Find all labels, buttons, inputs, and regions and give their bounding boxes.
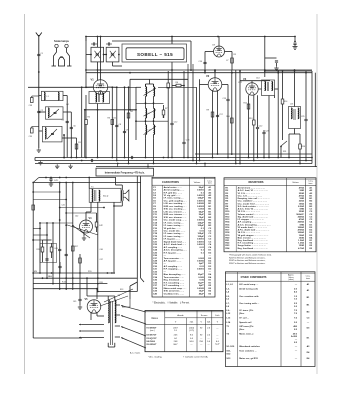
- capacitor C22: [256, 126, 259, 128]
- svg-text:A.F.C. diode load ... ... ...: A.F.C. diode load ... ... ... ... ... ..: [238, 229, 270, 232]
- ground V4: [83, 236, 85, 238]
- svg-text:125pF: 125pF: [197, 198, 204, 200]
- svg-text:V2 grid dec. ... ...: V2 grid dec. ... ...: [164, 228, 182, 230]
- wire T1 sec down b: [113, 206, 115, 273]
- svg-text:R5: R5: [234, 54, 236, 56]
- svg-text:2.6: 2.6: [174, 330, 177, 332]
- svg-text:S.W. osc. trimmer ... ..: S.W. osc. trimmer ... ..: [164, 216, 187, 219]
- svg-text:C23: C23: [265, 131, 268, 133]
- tone network box: [40, 244, 57, 263]
- wire lower top rail: [39, 177, 116, 179]
- svg-text:0.0001: 0.0001: [197, 269, 204, 271]
- svg-text:Tone switches ...: Tone switches ...: [239, 350, 257, 353]
- svg-text:C14: C14: [256, 78, 259, 80]
- aerial coil box L3 L4: [46, 107, 64, 119]
- valve V1 osc section: [214, 46, 225, 57]
- resistor R18: [95, 222, 98, 227]
- wire v248: [248, 95, 250, 157]
- wire link y213: [66, 212, 96, 214]
- wire top drop x264: [264, 37, 266, 78]
- svg-text:V1: V1: [91, 78, 95, 82]
- valves table: [145, 311, 223, 352]
- capacitor C9b: [123, 130, 126, 132]
- wire stub 96: [96, 213, 98, 218]
- wire v274: [274, 96, 276, 99]
- wire rung1: [33, 191, 60, 193]
- svg-text:C5: C5: [62, 120, 64, 122]
- svg-text:Screen: Screen: [201, 314, 208, 317]
- capacitor C5: [66, 120, 69, 122]
- node bus j3: [217, 153, 219, 155]
- svg-text:Aerial tuning coils: Aerial tuning coils: [239, 288, 259, 291]
- svg-text:L5,: L5,: [226, 296, 230, 298]
- svg-text:H.T. by-pass ... ...: H.T. by-pass ... ...: [164, 252, 182, 254]
- svg-text:A.C. mains: A.C. mains: [130, 352, 140, 355]
- svg-text:R9: R9: [207, 110, 209, 112]
- svg-text:C6: C6: [73, 126, 75, 128]
- svg-text:C45: C45: [73, 301, 76, 303]
- wire v269: [268, 96, 270, 158]
- speaker L14: [121, 190, 123, 200]
- capacitor C23: [262, 131, 265, 133]
- capacitor C47: [58, 265, 61, 267]
- wire V4 cath: [83, 233, 85, 237]
- wire V1 right pin: [108, 86, 117, 88]
- wire rail y79 drop: [129, 79, 131, 110]
- svg-text:C39: C39: [29, 136, 32, 138]
- wire V1 left pin: [86, 86, 93, 88]
- wire bus rail 2: [35, 157, 312, 159]
- wire V3 top: [251, 81, 253, 83]
- svg-text:H.T. smoothing ... ... ... ...: H.T. smoothing ... ... ... ... ... ...: [238, 242, 269, 245]
- capacitor C17: [216, 114, 219, 116]
- wire V1 top pin: [100, 37, 102, 80]
- svg-text:16µF*: 16µF*: [198, 282, 204, 284]
- svg-text:C10: C10: [199, 61, 202, 63]
- wire bus rail 1: [195, 153, 312, 155]
- svg-text:Osc. grid coupling ... .: Osc. grid coupling ... .: [164, 200, 187, 202]
- svg-text:R2: R2: [88, 117, 90, 119]
- svg-text:A.G.C. decoupling ... ... ...: A.G.C. decoupling ... ... ... ... ... ..: [238, 223, 271, 226]
- svg-text:Anode: Anode: [177, 314, 184, 317]
- capacitor C3t: [107, 42, 109, 45]
- output transformer T1 box: [89, 188, 121, 202]
- wire top rail stub 2: [97, 37, 99, 48]
- valve V3: [246, 83, 258, 95]
- wire v47b: [46, 223, 48, 278]
- svg-text:L7,: L7,: [226, 303, 230, 305]
- svg-text:R13: R13: [249, 118, 252, 120]
- svg-text:A.F. coupling ... ...: A.F. coupling ... ...: [164, 246, 183, 249]
- svg-text:V4 6V6G: V4 6V6G: [146, 340, 155, 343]
- IF2 coils: [265, 82, 266, 91]
- svg-text:8µF*: 8µF*: [199, 285, 204, 287]
- resistor R3b: [111, 120, 114, 125]
- capacitor C43: [58, 248, 61, 250]
- wire V5 conn b: [82, 330, 104, 332]
- capacitor C44b: [65, 253, 68, 255]
- wire arrows in: [187, 64, 189, 72]
- svg-text:Tone corrector ... ...: Tone corrector ... ...: [164, 276, 185, 279]
- wire rail y110: [85, 109, 130, 111]
- mains transformer T2 secondary: [115, 300, 116, 323]
- wire link y207: [60, 207, 104, 209]
- resistor R9: [211, 112, 214, 117]
- node top rail j3: [264, 36, 266, 38]
- resistor R7: [162, 110, 165, 115]
- wire arrows in2: [192, 64, 194, 72]
- svg-text:125pF: 125pF: [197, 233, 204, 235]
- IF transformer T-IF1 box: [89, 92, 110, 104]
- wire left col e: [81, 87, 83, 157]
- wire V2 pins: [212, 91, 214, 158]
- svg-text:Tone corrector ... ...: Tone corrector ... ...: [164, 257, 185, 260]
- svg-text:Bias decoupling ... ...: Bias decoupling ... ...: [164, 274, 186, 276]
- node bus j6: [63, 157, 65, 159]
- wire coil mid link2: [145, 120, 147, 123]
- wire T2 top: [107, 296, 109, 300]
- wire coil stack left: [136, 86, 141, 88]
- wire coils top link: [146, 83, 154, 85]
- svg-text:Scale lamps: Scale lamps: [54, 39, 70, 43]
- svg-text:mA.: mA.: [207, 321, 211, 324]
- wire V4 anode: [90, 202, 92, 212]
- wire v66: [65, 183, 67, 291]
- svg-text:Osc. tuning coils ...: Osc. tuning coils ...: [239, 302, 259, 305]
- svg-text:{Sec.: {Sec.: [239, 313, 245, 315]
- svg-text:CAPACITORS: CAPACITORS: [162, 180, 179, 184]
- wire V2 right: [222, 84, 228, 86]
- capacitor C1: [37, 53, 40, 55]
- resistor R2: [85, 120, 88, 125]
- svg-text:P20: P20: [88, 271, 91, 273]
- node lb1: [59, 272, 61, 274]
- wire rail y110 ext: [130, 109, 136, 111]
- svg-text:0.005: 0.005: [198, 277, 204, 279]
- svg-text:125pF: 125pF: [197, 225, 204, 227]
- wire reservoir: [97, 315, 104, 317]
- resistor R14: [281, 99, 284, 104]
- wire rail y79: [130, 78, 188, 80]
- wire gang link: [104, 54, 107, 56]
- trimmer capacitor CT2 box: [106, 47, 119, 62]
- svg-text:R3: R3: [108, 118, 110, 120]
- svg-text:C42: C42: [75, 216, 78, 218]
- svg-text:0.002: 0.002: [198, 258, 204, 260]
- valve V5 rectifier: [87, 300, 101, 314]
- svg-text:V1 sig. grid ... ...: V1 sig. grid ... ...: [164, 195, 181, 197]
- svg-text:H.T. smoothing ... ...: H.T. smoothing ... ...: [164, 284, 185, 287]
- resistor R1: [75, 144, 78, 149]
- wire aerial lead: [38, 40, 40, 148]
- svg-text:R14: R14: [284, 101, 287, 103]
- node top dots: [100, 36, 102, 38]
- screen lead C27 b: [235, 70, 237, 164]
- wire lower bus 3: [33, 283, 107, 285]
- svg-text:47kΩ: 47kΩ: [299, 218, 305, 221]
- svg-text:47kΩ: 47kΩ: [299, 187, 305, 190]
- svg-text:25µF*: 25µF*: [198, 274, 204, 276]
- wire spk top: [115, 178, 117, 186]
- node bus j1: [97, 157, 99, 159]
- ground C41: [50, 180, 52, 182]
- svg-text:M.W. osc. trimmer ... ..: M.W. osc. trimmer ... ..: [164, 213, 187, 216]
- capacitor C8b: [115, 124, 118, 126]
- resistor R6: [176, 84, 181, 87]
- trimmer capacitor CT1 box: [91, 47, 104, 62]
- svg-text:L7: L7: [148, 92, 150, 94]
- svg-text:A.G.C. feed, V2 ... ... ... ..: A.G.C. feed, V2 ... ... ... ... ... ...: [238, 208, 269, 211]
- T1 secondary: [99, 190, 100, 201]
- node bus j2: [153, 163, 155, 165]
- svg-text:Neg. feed-back ... ... ... ...: Neg. feed-back ... ... ... ... ... ...: [238, 248, 269, 250]
- svg-text:C9: C9: [126, 130, 128, 132]
- svg-text:Osc. stabilizer ... ... ... ..: Osc. stabilizer ... ... ... ... ... ...: [238, 200, 268, 203]
- svg-text:SOBELL – 515: SOBELL – 515: [137, 52, 173, 57]
- svg-text:L1, L2: L1, L2: [226, 284, 233, 286]
- node j205-71: [204, 70, 206, 72]
- svg-text:C22: C22: [259, 126, 262, 128]
- svg-text:L11: L11: [148, 130, 151, 132]
- svg-text:NEG: NEG: [48, 276, 53, 278]
- wire v40b: [39, 223, 41, 273]
- svg-text:mA.: mA.: [190, 321, 194, 324]
- coil L5: [45, 128, 46, 139]
- wire resR2: [85, 95, 87, 120]
- resistor R25L: [31, 98, 34, 103]
- svg-text:O/P trans {Pri.: O/P trans {Pri.: [239, 325, 254, 328]
- capacitor C19: [226, 98, 229, 100]
- capacitor C41: [49, 178, 52, 180]
- svg-text:L3,: L3,: [226, 289, 230, 291]
- valve V2: [208, 78, 222, 92]
- resistors table: [224, 178, 316, 252]
- wire V5 conn a: [82, 324, 104, 326]
- svg-text:C13: C13: [186, 140, 189, 142]
- node bus extra dots: [63, 157, 65, 159]
- svg-text:I.F. coil ...: I.F. coil ...: [239, 317, 249, 319]
- node vdots: [45, 177, 47, 179]
- node jl3: [84, 109, 86, 111]
- other components table: [225, 272, 315, 367]
- resistor R4b: [127, 113, 130, 118]
- osc coil pair L9 2: [146, 108, 147, 118]
- svg-text:V4 C.G. ... ... ... ... ... ..: V4 C.G. ... ... ... ... ... ...: [238, 231, 261, 234]
- wire top drop x172: [171, 37, 173, 42]
- trimmer CT1: [94, 51, 100, 58]
- wire V5 conn d: [33, 337, 82, 339]
- svg-text:Mains aerial coup. ... .: Mains aerial coup. ... .: [164, 288, 187, 290]
- wire rail y80 right: [240, 80, 270, 82]
- capacitor C25: [304, 118, 307, 120]
- wire net top: [43, 239, 52, 241]
- svg-text:V3 6Q7GT: V3 6Q7GT: [146, 338, 157, 340]
- svg-text:R19: R19: [37, 249, 40, 251]
- wire v289: [288, 134, 290, 158]
- wire right edge: [311, 71, 313, 164]
- wire bus stub2: [147, 164, 149, 167]
- wire gang top: [112, 40, 191, 42]
- wire choke top: [294, 71, 296, 107]
- wire V2 left: [200, 84, 209, 86]
- wire pointer2: [100, 296, 128, 306]
- svg-text:V5 6X5GT: V5 6X5GT: [146, 344, 157, 346]
- mains transformer T2 primary: [108, 300, 109, 323]
- svg-text:Damping, trim. coil ... ... ..: Damping, trim. coil ... ... ... ... ...: [238, 197, 270, 200]
- svg-text:H.F. stopping ... ...: H.F. stopping ... ...: [164, 268, 183, 271]
- svg-text:V2: V2: [206, 74, 210, 78]
- page left edge: [24, 14, 26, 374]
- wire bus left bend: [34, 158, 36, 161]
- choke coils: [291, 108, 292, 119]
- resistor R22b: [32, 205, 35, 210]
- svg-text:A.F. coupling ... ...: A.F. coupling ... ...: [164, 265, 183, 268]
- IF1 primary coil: [96, 93, 97, 102]
- svg-text:R6: R6: [176, 82, 178, 84]
- wire bus rail 5: [96, 166, 317, 168]
- wire v137 down: [136, 176, 138, 282]
- svg-text:* Electrolytic. † Variable.: * Electrolytic. † Variable. ‡ Pre-set.: [153, 301, 190, 304]
- wire box3 entry: [39, 130, 43, 132]
- volume control arm2: [73, 226, 90, 238]
- T1 primary: [92, 189, 93, 202]
- wire gang left vert: [85, 37, 87, 88]
- svg-text:R.20: R.20: [62, 282, 66, 284]
- svg-text:C19: C19: [223, 98, 226, 100]
- svg-text:R12: R12: [244, 103, 247, 105]
- ground bus b: [56, 164, 58, 166]
- node j184: [183, 85, 185, 87]
- svg-text:OTHER COMPONENTS: OTHER COMPONENTS: [241, 277, 267, 279]
- wire v140 bend: [141, 278, 144, 282]
- node j264-71: [264, 70, 266, 72]
- resistor R17b: [72, 246, 75, 251]
- trimmer CT2: [110, 51, 116, 58]
- wire v40: [40, 222, 73, 224]
- svg-text:Mains trans. {: Mains trans. {: [239, 332, 253, 335]
- wire box2 entry: [39, 111, 46, 113]
- wire HT rail: [86, 69, 312, 71]
- wire top rail: [86, 36, 295, 38]
- wire v33 top: [33, 178, 39, 183]
- ground bus: [40, 161, 42, 163]
- wire box1 entry: [39, 95, 42, 97]
- svg-text:Waveband switches: Waveband switches: [239, 345, 260, 348]
- svg-text:I.F. trans. tuning ... .: I.F. trans. tuning ... .: [164, 232, 185, 235]
- svg-text:I.F. stopper ... ... ... ... .: I.F. stopper ... ... ... ... ... ...: [238, 218, 265, 221]
- svg-text:Osc. reaction coils: Osc. reaction coils: [239, 295, 259, 298]
- svg-text:R22/3 in Emitron and Ediswan v: R22/3 in Emitron and Ediswan versions,: [229, 256, 266, 259]
- svg-text:Cath.: Cath.: [215, 314, 220, 317]
- wire choke bottom: [294, 129, 296, 135]
- svg-text:* A.C. reading.: * A.C. reading.: [148, 356, 162, 359]
- wire mid rail ext: [94, 86, 136, 88]
- svg-text:470kΩ: 470kΩ: [298, 229, 305, 232]
- wire lower bus 1: [33, 272, 112, 274]
- wire v33: [32, 183, 34, 339]
- wire bus rail 4: [35, 163, 312, 165]
- capacitor C6: [70, 126, 73, 128]
- wire v112: [111, 87, 113, 157]
- svg-text:H.F. grid dec. ... ...: H.F. grid dec. ... ...: [164, 192, 183, 194]
- svg-text:Osc. anode coup. ... ...: Osc. anode coup. ... ...: [164, 220, 187, 222]
- svg-text:C12: C12: [174, 122, 177, 124]
- svg-text:C43: C43: [54, 248, 57, 250]
- svg-text:0.0001: 0.0001: [197, 195, 204, 197]
- mains fan line 3: [121, 327, 146, 337]
- svg-text:R10: R10: [226, 116, 229, 118]
- svg-text:S.W. aerial trim. ... ..: S.W. aerial trim. ... ..: [164, 290, 185, 293]
- coil L3: [48, 108, 49, 118]
- node aerial junction: [38, 71, 40, 73]
- wire bus stub1: [117, 164, 119, 167]
- svg-text:A.F. by-pass ... ...: A.F. by-pass ... ...: [164, 260, 182, 263]
- svg-text:C7: C7: [226, 60, 228, 62]
- svg-text:Oscillator trim. ... ...: Oscillator trim. ... ...: [164, 292, 185, 295]
- wire V5 pins: [90, 312, 92, 320]
- svg-text:10pF: 10pF: [199, 291, 205, 293]
- node top rail j1: [171, 36, 173, 38]
- wire midrail2: [158, 86, 197, 88]
- svg-text:3Ω–Ω: 3Ω–Ω: [103, 196, 109, 198]
- scale lamps: [55, 44, 58, 47]
- svg-text:0.0003: 0.0003: [197, 206, 204, 208]
- svg-text:V2 6K7GT: V2 6K7GT: [146, 335, 157, 337]
- wire v124: [124, 87, 126, 157]
- svg-text:I.F. by-pass ... ...: I.F. by-pass ... ...: [164, 239, 181, 241]
- svg-text:I.F. trans. tuning ... .: I.F. trans. tuning ... .: [164, 221, 185, 224]
- svg-text:0.0001: 0.0001: [197, 190, 204, 192]
- resistor R20: [50, 247, 53, 252]
- svg-text:A.G.C. feed, V1 ... ... ... ..: A.G.C. feed, V1 ... ... ... ... ... ...: [238, 189, 269, 192]
- wire V1 to IF1: [100, 92, 102, 95]
- wire v172: [171, 37, 173, 45]
- svg-text:Aerial shunt ... ... ... ... .: Aerial shunt ... ... ... ... ... ...: [238, 187, 266, 190]
- svg-text:H.F. aerial coup. ...: H.F. aerial coup. ...: [239, 284, 258, 286]
- svg-text:0.0005: 0.0005: [197, 203, 204, 205]
- page right edge: [316, 14, 318, 374]
- T1 core: [94, 190, 96, 201]
- svg-text:H.T. smoothing ... ...: H.T. smoothing ... ...: [164, 281, 185, 284]
- wire v196: [196, 87, 198, 163]
- wire lower link: [33, 239, 42, 241]
- svg-text:(ohms): (ohms): [288, 279, 294, 281]
- svg-text:R17: R17: [75, 246, 78, 248]
- svg-text:L.W. osc. tracking ... .: L.W. osc. tracking ... .: [164, 202, 187, 205]
- wire y291 link: [98, 291, 138, 293]
- wire right edge b: [314, 73, 316, 167]
- capacitors table: [152, 177, 215, 297]
- svg-text:75pF: 75pF: [199, 217, 205, 219]
- svg-text:4.7kΩ: 4.7kΩ: [298, 247, 304, 250]
- svg-text:65pF: 65pF: [199, 211, 205, 213]
- svg-text:Osc. anode dec. ... ...: Osc. anode dec. ... ...: [164, 230, 186, 232]
- svg-text:(1.75): (1.75): [189, 330, 194, 332]
- wire v184: [183, 71, 185, 140]
- wire T2 taps: [115, 304, 120, 306]
- svg-text:50pF: 50pF: [199, 214, 205, 216]
- svg-text:0.0005: 0.0005: [197, 288, 204, 290]
- wire trimmer down: [97, 62, 99, 80]
- svg-text:S.W. osc. tracking ... .: S.W. osc. tracking ... .: [164, 208, 187, 211]
- wire pointer1: [104, 289, 133, 302]
- node bus j7: [183, 157, 185, 159]
- node HT dots: [97, 69, 99, 71]
- wire v137 bend: [130, 282, 137, 286]
- svg-text:C25: C25: [301, 116, 304, 118]
- svg-text:S1–S10: S1–S10: [226, 346, 235, 348]
- osc coil pair L11 3: [146, 125, 147, 134]
